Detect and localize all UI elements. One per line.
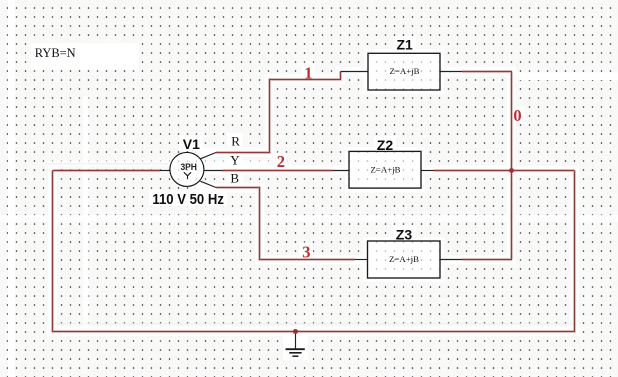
- svg-text:2: 2: [277, 152, 285, 171]
- svg-text:Z1: Z1: [397, 36, 414, 52]
- svg-text:RYB=N: RYB=N: [35, 45, 77, 60]
- svg-text:Y: Y: [230, 152, 240, 167]
- svg-text:3PH: 3PH: [180, 162, 197, 173]
- svg-text:Z3: Z3: [396, 227, 413, 243]
- svg-text:B: B: [230, 170, 239, 185]
- svg-text:V1: V1: [183, 136, 200, 152]
- svg-text:1: 1: [304, 63, 312, 82]
- svg-text:0: 0: [513, 106, 521, 125]
- svg-text:Z=A+jB: Z=A+jB: [371, 165, 401, 175]
- svg-text:Z=A+jB: Z=A+jB: [390, 66, 420, 76]
- svg-text:3: 3: [302, 243, 310, 262]
- svg-text:110 V 50 Hz: 110 V 50 Hz: [152, 192, 224, 208]
- svg-text:Z=A+jB: Z=A+jB: [389, 254, 419, 264]
- svg-text:R: R: [231, 133, 240, 148]
- svg-text:Z2: Z2: [377, 137, 394, 153]
